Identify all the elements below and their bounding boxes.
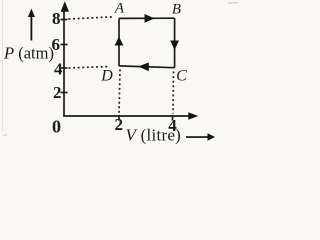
svg-text:A: A bbox=[114, 1, 125, 17]
svg-text:4: 4 bbox=[54, 60, 63, 79]
process C to D (bottom edge) bbox=[119, 66, 175, 68]
tick P=4 bbox=[61, 67, 68, 69]
x-axis V bbox=[63, 115, 192, 117]
dotted guide V=4 below C bbox=[172, 72, 175, 114]
faint scan mark top-right bbox=[228, 2, 238, 4]
svg-text:8: 8 bbox=[52, 9, 61, 28]
faint scan speck bottom-left bbox=[3, 134, 7, 136]
y-axis P bbox=[63, 6, 65, 117]
P label arrow bbox=[28, 9, 35, 18]
dotted guide P=4 to D bbox=[69, 67, 111, 69]
arrowhead C to D bbox=[138, 62, 149, 71]
svg-text:2: 2 bbox=[53, 83, 62, 102]
tick V=4 bbox=[172, 115, 174, 121]
V label arrow bbox=[208, 133, 216, 141]
process A to B (top edge) bbox=[119, 17, 175, 19]
arrowhead B to C bbox=[170, 41, 179, 51]
svg-text:0: 0 bbox=[52, 117, 61, 137]
faint scan crease left edge bbox=[2, 0, 3, 132]
svg-text:P (atm): P (atm) bbox=[3, 44, 54, 63]
svg-text:C: C bbox=[176, 68, 187, 85]
x-axis arrowhead bbox=[188, 112, 198, 120]
svg-text:2: 2 bbox=[115, 115, 124, 134]
dotted guide V=2 below D bbox=[119, 70, 120, 115]
y-axis arrowhead bbox=[61, 1, 69, 12]
svg-text:D: D bbox=[100, 68, 113, 85]
arrowhead A to B bbox=[145, 14, 155, 23]
process B to C (right edge) bbox=[174, 18, 176, 67]
svg-text:B: B bbox=[172, 2, 181, 18]
svg-text:4: 4 bbox=[168, 116, 177, 135]
tick V=2 bbox=[118, 115, 120, 121]
dotted guide P=8 to A bbox=[69, 17, 115, 19]
arrowhead D to A bbox=[115, 37, 124, 46]
process D to A (left edge) bbox=[118, 18, 120, 66]
tick P=8 bbox=[61, 19, 68, 21]
svg-text:6: 6 bbox=[52, 35, 61, 54]
paper background bbox=[0, 0, 239, 158]
tick P=2 bbox=[61, 92, 68, 94]
tick P=6 bbox=[61, 44, 68, 46]
